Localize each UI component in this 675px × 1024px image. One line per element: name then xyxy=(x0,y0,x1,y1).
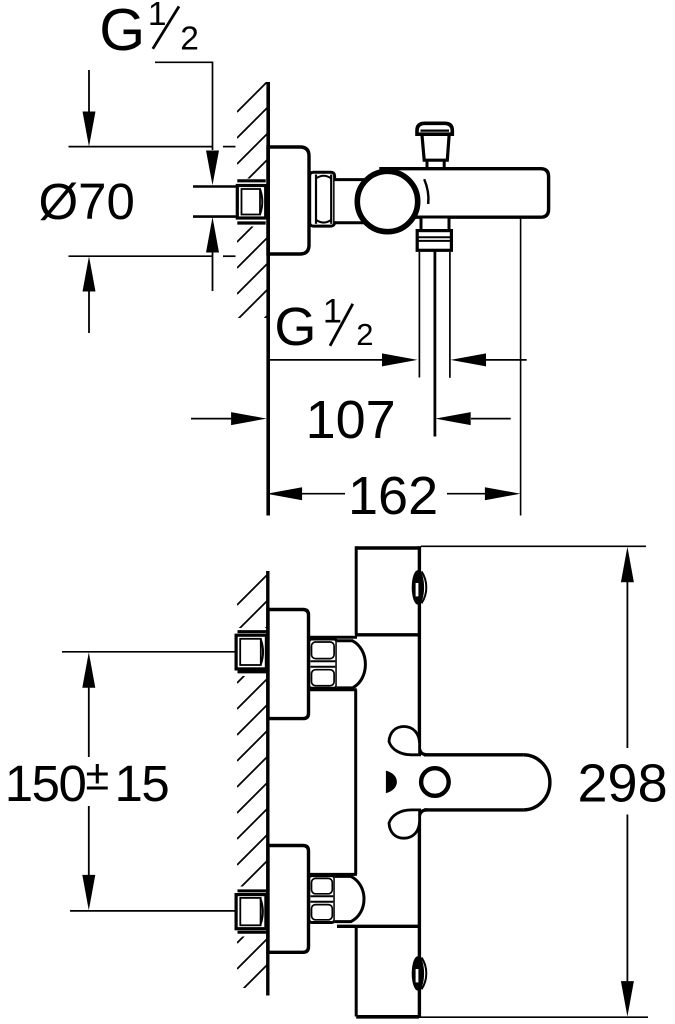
thermostat handle (circle) xyxy=(357,171,417,231)
bottom inlet dome xyxy=(335,876,364,921)
dimension Ø70: bottom extension line xyxy=(69,255,214,257)
svg-text:±: ± xyxy=(86,752,110,800)
body/handle intersection arc xyxy=(424,179,428,204)
spout top leaf xyxy=(389,726,420,754)
dimension 150±15: top extension line xyxy=(62,651,236,653)
boss top line (top inlet) xyxy=(309,636,357,639)
spout bracket top edge xyxy=(424,753,523,756)
spout outlet extension line xyxy=(520,219,522,516)
spout bottom leaf xyxy=(389,810,420,838)
hex nut (side view) xyxy=(310,172,335,226)
top inlet dome xyxy=(337,641,366,688)
dimension Ø70: down arrow xyxy=(83,70,96,147)
wall union chamfer arc xyxy=(260,189,262,215)
faceplate division line (lower) xyxy=(418,818,421,1017)
wall hatching (top view) xyxy=(237,82,267,346)
wall surface edge line (top view) xyxy=(266,82,270,516)
half-disc marker xyxy=(386,771,397,794)
boss top line (bottom inlet) xyxy=(309,873,357,876)
boss bottom line (top inlet) xyxy=(309,688,357,691)
label G1/2 leader line xyxy=(155,62,213,150)
bottom inlet union square xyxy=(236,895,266,929)
division corner to bracket top xyxy=(419,747,427,755)
svg-text:150: 150 xyxy=(5,755,86,812)
faucet body (side view) xyxy=(381,169,549,218)
svg-text:15: 15 xyxy=(115,755,169,812)
298 bottom extension line xyxy=(419,1016,648,1018)
G1/2 down arrow to pipe xyxy=(206,151,219,186)
wall surface edge line (front view) xyxy=(266,571,269,996)
bottom screw xyxy=(412,956,427,991)
faceplate division line (upper) xyxy=(418,546,421,747)
dimension 150±15: up arrow xyxy=(82,652,95,757)
svg-text:298: 298 xyxy=(578,754,668,814)
dimension 107: left arrow to wall xyxy=(191,412,267,425)
bottom inlet: flange line above square xyxy=(238,889,268,892)
top screw xyxy=(412,570,427,605)
dimension 107: right arrow at hose xyxy=(435,412,511,425)
supply pipe stub G1/2 (bottom line) xyxy=(193,215,238,218)
body strip: bottom edge (thick) xyxy=(356,1015,419,1019)
spout bracket bottom edge xyxy=(424,808,523,811)
body strip: left edge bottom block xyxy=(355,926,358,1016)
diverter knob body xyxy=(422,134,449,160)
bottom block top edge xyxy=(337,925,419,928)
G1/2 hose dimension left arrow with stem xyxy=(451,353,527,366)
svg-text:Ø70: Ø70 xyxy=(39,173,135,230)
svg-text:1: 1 xyxy=(323,293,342,331)
wall union: line below square xyxy=(237,221,265,224)
top inlet: flange line below square xyxy=(238,670,268,673)
body strip: left edge top block xyxy=(355,546,358,635)
supply pipe stub G1/2 (top line) xyxy=(193,185,238,188)
svg-text:G: G xyxy=(274,297,316,357)
svg-text:107: 107 xyxy=(306,390,396,450)
wall union square (inner) xyxy=(242,189,261,215)
division corner to bracket bottom xyxy=(419,810,427,818)
spout bracket right cap xyxy=(523,755,550,810)
shower hose xyxy=(433,250,436,436)
top inlet union square xyxy=(236,635,266,669)
label G1/2 (wall supply thread): text xyxy=(99,0,199,63)
dimension 150±15: bottom extension line xyxy=(70,910,236,912)
wall hatching (front view) xyxy=(237,575,267,1021)
bottom escutcheon flange (front) xyxy=(268,846,309,953)
white gaps around wall squares xyxy=(237,628,268,676)
G1/2 hose extension line (left) xyxy=(418,252,420,378)
G1/2 hose dimension line with right arrow xyxy=(268,353,417,366)
svg-text:162: 162 xyxy=(348,466,438,526)
white gap around wall union square xyxy=(237,179,268,227)
connector sleeve between nut and handle xyxy=(335,180,364,223)
dimension Ø70: top extension line xyxy=(69,146,214,148)
dimension 162: left arrow xyxy=(267,487,345,500)
body strip: left edge middle xyxy=(354,690,357,875)
shower hose connector (upper piece) xyxy=(421,217,449,231)
top escutcheon flange (front) xyxy=(268,610,309,719)
svg-text:2: 2 xyxy=(180,21,199,58)
top inlet hex nut (front) xyxy=(309,639,337,688)
svg-text:1: 1 xyxy=(148,0,167,33)
temperature knob circle xyxy=(421,768,449,796)
dimension 298: down arrow xyxy=(621,815,634,1017)
body strip: top edge (thick) xyxy=(356,546,421,550)
G1/2 up arrow to pipe xyxy=(206,217,219,291)
escutcheon flange (side view) xyxy=(268,147,309,254)
shower hose connector nut xyxy=(417,231,451,251)
bottom inlet hex nut (front) xyxy=(309,876,335,923)
298 top extension line xyxy=(421,545,646,547)
top inlet: flange line above square xyxy=(238,630,268,633)
G1/2 hose extension line (right) xyxy=(449,252,451,378)
dimension Ø70: up arrow xyxy=(83,256,96,333)
dimension 150±15: down arrow xyxy=(82,806,95,910)
dimension 298: up arrow xyxy=(621,547,634,748)
svg-text:2: 2 xyxy=(356,317,373,352)
wall union: line above square xyxy=(237,179,265,182)
diverter knob cap xyxy=(417,123,452,134)
wall union square (outer) xyxy=(237,186,265,219)
top block bottom edge xyxy=(355,633,419,636)
bottom inlet: flange line below square xyxy=(238,931,268,934)
label G1/2 (hose thread): text xyxy=(274,293,373,358)
diverter knob stem xyxy=(426,160,429,169)
dimension 162: right arrow xyxy=(447,487,520,500)
svg-text:G: G xyxy=(99,0,145,63)
